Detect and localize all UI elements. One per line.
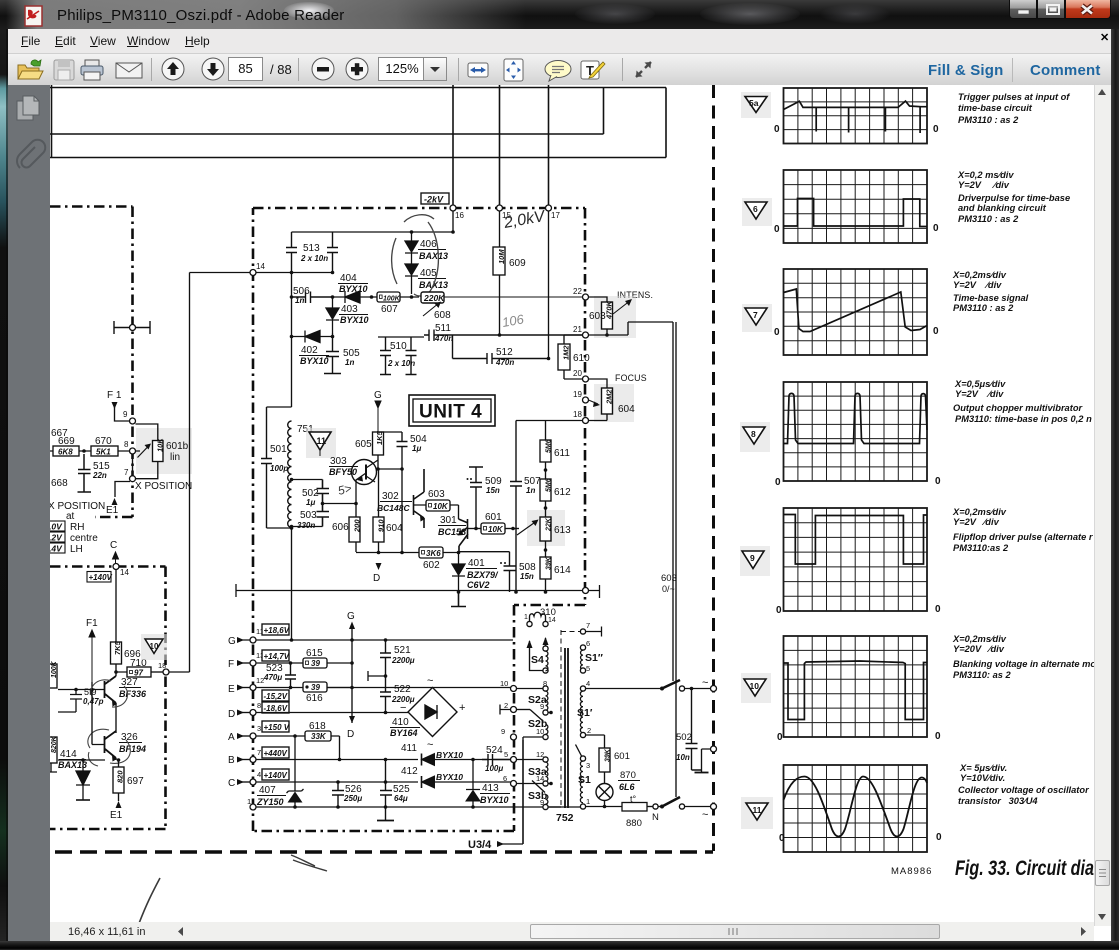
node 7 bbox=[130, 476, 136, 482]
resistor 606 200 bbox=[349, 517, 360, 542]
svg-text:470n: 470n bbox=[434, 334, 453, 343]
svg-text:403: 403 bbox=[341, 304, 358, 315]
wire top horizontal 0 bbox=[50, 87, 666, 89]
oscillogram waveform 11 bbox=[784, 777, 928, 837]
svg-text:Y=10V∕div.: Y=10V∕div. bbox=[960, 773, 1005, 783]
svg-text:10K: 10K bbox=[156, 438, 165, 452]
svg-text:19: 19 bbox=[573, 390, 582, 399]
svg-text:BYX10: BYX10 bbox=[339, 284, 368, 294]
svg-text:BYX10: BYX10 bbox=[480, 795, 509, 805]
oscillogram text 5 bbox=[952, 507, 1094, 553]
svg-text:B: B bbox=[228, 755, 235, 766]
svg-text:9: 9 bbox=[540, 702, 544, 711]
triangle marker 11 bbox=[306, 428, 336, 458]
svg-text:18: 18 bbox=[573, 410, 582, 419]
terminal 22 bbox=[583, 294, 589, 300]
svg-text:0: 0 bbox=[936, 832, 942, 843]
svg-text:5M6: 5M6 bbox=[546, 478, 553, 492]
wire C down bbox=[115, 570, 117, 643]
svg-text:39: 39 bbox=[311, 683, 320, 692]
svg-text:5: 5 bbox=[504, 750, 508, 759]
SEC3 : lower-left amplifier block bbox=[45, 273, 250, 822]
svg-text:11: 11 bbox=[317, 436, 327, 446]
svg-text:2M2: 2M2 bbox=[605, 389, 614, 405]
svg-text:FOCUS: FOCUS bbox=[615, 373, 647, 383]
wire vertical corner 2 bbox=[665, 88, 667, 158]
svg-text:602: 602 bbox=[423, 560, 440, 571]
oscillogram waveform 5a bbox=[784, 101, 928, 133]
svg-text:X=0,2ms∕div: X=0,2ms∕div bbox=[952, 270, 1007, 280]
svg-text:and blanking circuit: and blanking circuit bbox=[958, 203, 1047, 213]
marker 8 bbox=[740, 422, 770, 452]
svg-text:UNIT 4: UNIT 4 bbox=[419, 402, 482, 423]
window buttons bbox=[1009, 0, 1037, 19]
up/down circles bbox=[162, 58, 184, 80]
oscillogram text 7 bbox=[958, 763, 1090, 806]
wire 669-670-node8 bbox=[50, 450, 129, 452]
E1 terminal bbox=[112, 498, 118, 505]
svg-text:LH: LH bbox=[70, 544, 83, 555]
voltage table bbox=[48, 521, 65, 531]
svg-text:-18,6V: -18,6V bbox=[264, 704, 288, 713]
svg-text:15n: 15n bbox=[486, 486, 500, 495]
diode 401 BZX79 bbox=[452, 553, 465, 593]
marker 7 bbox=[742, 304, 772, 332]
resistor 605 1K5 bbox=[373, 432, 384, 455]
bottom scroll row bbox=[50, 922, 1094, 941]
svg-text:0,47p: 0,47p bbox=[83, 697, 104, 706]
terminal 18b bbox=[583, 418, 589, 424]
toolbar bbox=[8, 54, 1111, 86]
-2kV label bbox=[421, 193, 449, 204]
svg-text:X=0,2 ms∕div: X=0,2 ms∕div bbox=[957, 170, 1014, 180]
svg-text:8: 8 bbox=[751, 429, 756, 439]
svg-text:100μ: 100μ bbox=[485, 764, 503, 773]
svg-text:250μ: 250μ bbox=[343, 794, 362, 803]
svg-text:613: 613 bbox=[554, 525, 571, 536]
svg-text:603: 603 bbox=[589, 311, 606, 322]
triangle marker 10 bbox=[141, 634, 167, 660]
S4 winding bbox=[543, 646, 548, 651]
window edges bbox=[1111, 29, 1119, 941]
svg-text:601: 601 bbox=[614, 751, 630, 762]
svg-text:-2kV: -2kV bbox=[424, 195, 444, 205]
svg-text:7: 7 bbox=[753, 310, 758, 320]
open folder bbox=[18, 60, 43, 79]
svg-text:64μ: 64μ bbox=[394, 794, 408, 803]
oscillogram text 6 bbox=[952, 634, 1096, 680]
svg-text:820K: 820K bbox=[51, 735, 58, 753]
transformer core bbox=[565, 648, 568, 808]
wire F1 to node 9 bbox=[115, 403, 130, 421]
zoom dropdown arrow bbox=[427, 68, 437, 73]
oscillogram grid b2 bbox=[784, 170, 928, 243]
svg-text:14: 14 bbox=[536, 774, 544, 783]
svg-text:20: 20 bbox=[573, 369, 582, 378]
svg-text:Collector voltage of oscill: Collector voltage of oscillator bbox=[958, 785, 1090, 795]
svg-text:0: 0 bbox=[774, 224, 780, 235]
paperclip bbox=[17, 140, 45, 168]
svg-text:39K: 39K bbox=[546, 556, 553, 570]
svg-text:−: − bbox=[400, 702, 406, 714]
oscillogram grid b4 bbox=[784, 382, 928, 481]
handwritten pencil stroke bottom left bbox=[138, 878, 160, 926]
switch upper bbox=[662, 680, 680, 689]
svg-text:3: 3 bbox=[586, 761, 590, 770]
svg-text:10: 10 bbox=[150, 642, 159, 651]
marker 11 bbox=[741, 797, 773, 829]
wire 17 down bbox=[548, 211, 550, 359]
pencil scribbles around transistors bbox=[88, 680, 131, 766]
svg-text:PM3110: time-base in pos: PM3110: time-base in pos 0,2 n bbox=[955, 414, 1092, 424]
SEC7 : mains transformer section bbox=[463, 621, 717, 844]
capacitor 504 1u bbox=[397, 432, 408, 448]
cut resistor at left edge bbox=[45, 664, 57, 688]
strap 310 plug arrows bbox=[530, 638, 546, 671]
svg-text:Driverpulse for time-base: Driverpulse for time-base bbox=[958, 193, 1070, 203]
svg-text:2: 2 bbox=[587, 726, 591, 735]
resistor 601b 10K bbox=[481, 523, 505, 534]
svg-text:1μ: 1μ bbox=[412, 444, 421, 453]
svg-text:D: D bbox=[228, 709, 235, 720]
transistor 327 BF336 bbox=[105, 676, 117, 703]
svg-text:5: 5 bbox=[586, 664, 590, 673]
S2a winding bbox=[543, 686, 548, 691]
svg-text:,2V: ,2V bbox=[48, 533, 63, 543]
transistor 301 BC158 bbox=[459, 519, 469, 552]
ground symbol bbox=[451, 592, 466, 607]
wire coil bottom down bbox=[291, 527, 293, 640]
node 8 bbox=[130, 448, 136, 454]
resistor 603b 10K bbox=[426, 500, 450, 511]
svg-text:PM3110: as 2: PM3110: as 2 bbox=[953, 670, 1012, 680]
separator bbox=[298, 58, 299, 81]
svg-text:870: 870 bbox=[620, 770, 636, 781]
svg-text:0: 0 bbox=[775, 477, 781, 488]
svg-text:D: D bbox=[373, 573, 380, 584]
wire 506 left vertical down to coil bbox=[291, 273, 293, 408]
svg-text:9: 9 bbox=[123, 410, 128, 419]
svg-text:413: 413 bbox=[482, 783, 499, 794]
wire 303 collector row bbox=[375, 448, 402, 552]
svg-text:C6V2: C6V2 bbox=[467, 580, 490, 590]
svg-text:10: 10 bbox=[500, 679, 508, 688]
svg-text:1M2: 1M2 bbox=[562, 345, 571, 360]
svg-text:-15,2V: -15,2V bbox=[264, 692, 288, 701]
svg-text:910: 910 bbox=[377, 519, 386, 532]
pdf icon bbox=[24, 5, 46, 27]
svg-text:2200μ: 2200μ bbox=[391, 656, 415, 665]
svg-text:6L6: 6L6 bbox=[619, 782, 636, 792]
pages icon bbox=[17, 101, 33, 120]
E1 arrow bottom bbox=[116, 801, 122, 808]
vertical scrollbar bbox=[1094, 85, 1111, 926]
svg-text:PM3110 : as 2: PM3110 : as 2 bbox=[958, 115, 1019, 125]
diode 405 BAX13 bbox=[405, 264, 418, 294]
wire border node to 502 bbox=[702, 749, 711, 772]
svg-text:39: 39 bbox=[311, 659, 320, 668]
svg-text:BAX13: BAX13 bbox=[419, 251, 448, 261]
svg-text:0: 0 bbox=[935, 476, 941, 487]
svg-text:Y=2V ∕div: Y=2V ∕div bbox=[953, 517, 1000, 527]
oscillogram text 3 bbox=[952, 270, 1029, 313]
wire 18 to long vertical bbox=[169, 273, 250, 673]
potentiometer 613 22K bbox=[527, 510, 565, 546]
svg-text:1n: 1n bbox=[526, 486, 535, 495]
svg-text:5K1: 5K1 bbox=[96, 448, 111, 457]
svg-text:470μ: 470μ bbox=[263, 673, 282, 682]
svg-text:15n: 15n bbox=[520, 572, 534, 581]
menu bar bbox=[8, 29, 1111, 54]
D arrow mid bbox=[376, 563, 382, 570]
svg-text:+150 V: +150 V bbox=[264, 723, 290, 732]
terminal 20 bbox=[583, 376, 589, 382]
wire top horizontal 2 bbox=[50, 157, 666, 159]
diode 403 BYX10 vertical bbox=[326, 297, 339, 333]
wire base row bbox=[58, 672, 116, 733]
svg-text:8: 8 bbox=[124, 440, 129, 449]
svg-text:BC148C: BC148C bbox=[377, 503, 410, 513]
svg-text:6K8: 6K8 bbox=[58, 448, 73, 457]
svg-text:502: 502 bbox=[676, 732, 692, 743]
svg-text:470K: 470K bbox=[605, 300, 614, 320]
svg-text:10K: 10K bbox=[433, 502, 449, 511]
svg-text:606: 606 bbox=[332, 522, 349, 533]
svg-text:RH: RH bbox=[70, 522, 84, 533]
svg-text:14: 14 bbox=[256, 262, 265, 271]
svg-text:6: 6 bbox=[586, 639, 590, 648]
svg-text:2: 2 bbox=[504, 701, 508, 710]
S1' right winding bbox=[580, 686, 585, 691]
svg-text:100K: 100K bbox=[51, 660, 58, 678]
svg-text:605: 605 bbox=[355, 439, 372, 450]
svg-text:10: 10 bbox=[750, 681, 760, 691]
svg-text:Trigger pulses at input of: Trigger pulses at input of bbox=[958, 92, 1070, 102]
svg-text:10M: 10M bbox=[497, 249, 506, 264]
transistor 326 BF194 bbox=[105, 731, 117, 758]
bridge rectifier 410 bbox=[408, 688, 457, 737]
S1 winding bbox=[580, 756, 585, 761]
svg-text:+140V: +140V bbox=[89, 573, 113, 582]
svg-text:Y=2V ∕div: Y=2V ∕div bbox=[955, 389, 1004, 399]
svg-text:0: 0 bbox=[935, 604, 941, 615]
svg-text:F: F bbox=[228, 659, 234, 670]
wire node7 branch bbox=[115, 454, 133, 497]
terminal 21 bbox=[583, 332, 589, 338]
svg-text:0: 0 bbox=[933, 326, 939, 337]
svg-text:F1: F1 bbox=[86, 618, 98, 629]
resistor 697 820 bbox=[113, 767, 124, 793]
svg-text:414: 414 bbox=[60, 749, 77, 760]
marker 10 bbox=[741, 673, 771, 703]
marker 5a bbox=[741, 92, 771, 118]
svg-text:5>: 5> bbox=[336, 481, 353, 498]
wire 696 to row bbox=[116, 664, 127, 672]
terminal 17 bbox=[546, 205, 552, 211]
svg-text:601: 601 bbox=[485, 512, 502, 523]
svg-text:503: 503 bbox=[300, 510, 317, 521]
svg-text:5a: 5a bbox=[749, 98, 759, 108]
svg-text:668: 668 bbox=[51, 478, 68, 489]
svg-text:time-base circuit: time-base circuit bbox=[958, 103, 1033, 113]
svg-text:501: 501 bbox=[270, 444, 287, 455]
svg-text:Fig. 33. Circuit dia: Fig. 33. Circuit dia bbox=[955, 857, 1094, 880]
svg-text:6: 6 bbox=[503, 774, 507, 783]
svg-text:E: E bbox=[228, 684, 235, 695]
svg-text:S3b: S3b bbox=[528, 790, 547, 802]
svg-text:Y=2V ∕div: Y=2V ∕div bbox=[953, 280, 1002, 290]
svg-text:697: 697 bbox=[127, 776, 144, 787]
svg-text:14: 14 bbox=[548, 617, 556, 624]
wire pair down from intens bbox=[673, 322, 676, 797]
svg-text:BC158: BC158 bbox=[438, 527, 466, 537]
svg-text:5I9: 5I9 bbox=[84, 687, 97, 697]
svg-text:4: 4 bbox=[586, 679, 590, 688]
UNIT 4 box bbox=[409, 395, 495, 426]
svg-text:Time-base signal: Time-base signal bbox=[953, 293, 1029, 303]
left edge cut resistor lower bbox=[45, 737, 57, 763]
node 9 bbox=[130, 418, 136, 424]
svg-text:S1: S1 bbox=[578, 774, 591, 786]
svg-text:2 x 10n: 2 x 10n bbox=[387, 359, 415, 368]
svg-text:603: 603 bbox=[428, 489, 445, 500]
resistor 609 10M bbox=[493, 247, 505, 275]
fit width icon bbox=[468, 63, 488, 77]
svg-text:511: 511 bbox=[435, 323, 451, 334]
svg-text:BYX10: BYX10 bbox=[436, 750, 463, 760]
resistor 97 bbox=[127, 667, 151, 677]
svg-text:18: 18 bbox=[158, 661, 166, 670]
svg-text:+18,6V: +18,6V bbox=[264, 626, 290, 635]
resistor 614 39K bbox=[540, 557, 551, 579]
potentiometer 601b 10K lin (shaded) bbox=[136, 428, 192, 474]
capacitor 512 470n bbox=[453, 335, 549, 364]
svg-text:transistor 303∕U4: transistor 303∕U4 bbox=[958, 796, 1038, 806]
svg-text:603: 603 bbox=[661, 573, 677, 584]
SEC1 : borders and top feed wires bbox=[50, 85, 666, 205]
svg-text:513: 513 bbox=[303, 243, 320, 254]
title bar bbox=[0, 0, 1119, 29]
oscillogram text 2 bbox=[957, 170, 1070, 224]
oscillogram grid b1 bbox=[784, 88, 928, 144]
resistor 616 39 bbox=[303, 682, 327, 692]
bottom row pin1-fuse-switch bbox=[586, 806, 622, 808]
svg-text:0: 0 bbox=[776, 605, 782, 616]
wire vertical to terminal 17 bbox=[548, 85, 550, 205]
diode 402 BYX10 bbox=[292, 331, 333, 343]
svg-text:302: 302 bbox=[382, 491, 399, 502]
svg-text:402: 402 bbox=[301, 345, 318, 356]
terminal 16 bbox=[450, 205, 456, 211]
svg-text:0: 0 bbox=[933, 223, 939, 234]
node 18 bbox=[151, 671, 163, 673]
svg-text:8: 8 bbox=[257, 701, 261, 710]
svg-text:522: 522 bbox=[394, 684, 411, 695]
connector feedthrough on border bbox=[114, 321, 150, 334]
speech bubble bbox=[545, 61, 571, 82]
diode 406 BAX13 bbox=[405, 232, 418, 264]
svg-text:12: 12 bbox=[536, 750, 544, 759]
svg-text:0: 0 bbox=[774, 124, 780, 135]
sign icon bbox=[581, 61, 605, 79]
svg-text:33K: 33K bbox=[311, 732, 327, 741]
svg-text:X=0,2ms∕div: X=0,2ms∕div bbox=[952, 507, 1007, 517]
svg-text:+: + bbox=[459, 702, 465, 714]
oscillogram grid b3 bbox=[784, 269, 928, 355]
SEC5 : unit4 oscillator interior bbox=[236, 390, 600, 640]
svg-text:+140V: +140V bbox=[264, 771, 288, 780]
capacitor 513 (2x10n) left bbox=[286, 232, 297, 273]
svg-text:~: ~ bbox=[702, 809, 708, 821]
svg-text:412: 412 bbox=[401, 766, 418, 777]
svg-text:303: 303 bbox=[330, 456, 347, 467]
potentiometer 604 2M2 bbox=[594, 384, 634, 422]
wire node8 to pot bbox=[136, 424, 158, 479]
svg-text:2 x 10n: 2 x 10n bbox=[300, 254, 328, 263]
svg-text:N: N bbox=[652, 812, 659, 823]
svg-text:PM3110 : as 2: PM3110 : as 2 bbox=[958, 214, 1019, 224]
pin2 wire to resistor 601 bbox=[586, 735, 605, 748]
svg-text:+14,7V: +14,7V bbox=[264, 652, 290, 661]
oscillogram grid b6 bbox=[784, 636, 928, 737]
save (disabled) bbox=[54, 60, 74, 80]
svg-text:PM3110:as 2: PM3110:as 2 bbox=[953, 543, 1009, 553]
svg-text:609: 609 bbox=[509, 258, 526, 269]
svg-text:330n: 330n bbox=[297, 521, 315, 530]
svg-text:PM3110 : as 2: PM3110 : as 2 bbox=[953, 303, 1014, 313]
resistor 601 lamp series bbox=[599, 748, 610, 772]
svg-text:Output chopper multivibrator: Output chopper multivibrator bbox=[953, 403, 1084, 413]
wire 301 emitter row to 601 bbox=[468, 528, 482, 530]
svg-text:39K: 39K bbox=[605, 748, 612, 762]
svg-text:X=0,2ms∕div: X=0,2ms∕div bbox=[952, 634, 1007, 644]
transistor 303 BFY50 bbox=[352, 460, 377, 485]
svg-text:16: 16 bbox=[455, 211, 464, 220]
svg-text:,0V: ,0V bbox=[48, 522, 63, 532]
svg-text:7: 7 bbox=[257, 748, 261, 757]
coil 751 bbox=[288, 421, 292, 527]
svg-text:601b: 601b bbox=[166, 441, 189, 452]
marker 9 bbox=[740, 546, 770, 576]
svg-text:1n: 1n bbox=[345, 358, 354, 367]
SEC8 : oscillogram column bbox=[784, 88, 928, 852]
svg-text:1: 1 bbox=[586, 797, 590, 806]
svg-text:BF336: BF336 bbox=[119, 689, 147, 699]
svg-text:1μ: 1μ bbox=[306, 498, 315, 507]
SEC2 : upper-left X-position block bbox=[48, 321, 192, 555]
wire vertical corner 1 bbox=[603, 88, 605, 135]
capacitor 519 0,47p bbox=[58, 690, 82, 713]
upper-left block dash-dot bbox=[50, 207, 133, 518]
svg-text:604: 604 bbox=[386, 523, 403, 534]
svg-text:D: D bbox=[347, 729, 354, 740]
svg-text:C: C bbox=[228, 778, 235, 789]
oscillogram waveform 6 bbox=[784, 199, 928, 227]
bottom rail bbox=[250, 804, 256, 810]
svg-text:405: 405 bbox=[420, 268, 437, 279]
svg-text:3K6: 3K6 bbox=[426, 549, 441, 558]
svg-text:411: 411 bbox=[401, 743, 417, 754]
D down arrow bbox=[349, 716, 355, 723]
column wiring bbox=[516, 421, 583, 593]
left edge + sidebar bbox=[0, 29, 8, 941]
lower-left block dash-dot bbox=[50, 567, 166, 830]
envelope bbox=[116, 63, 142, 78]
toolbar icons svg bbox=[8, 54, 1111, 85]
svg-text:1: 1 bbox=[524, 614, 528, 621]
resistor 696 7K5 bbox=[111, 642, 122, 664]
dotted separator before comment bbox=[1012, 58, 1013, 82]
